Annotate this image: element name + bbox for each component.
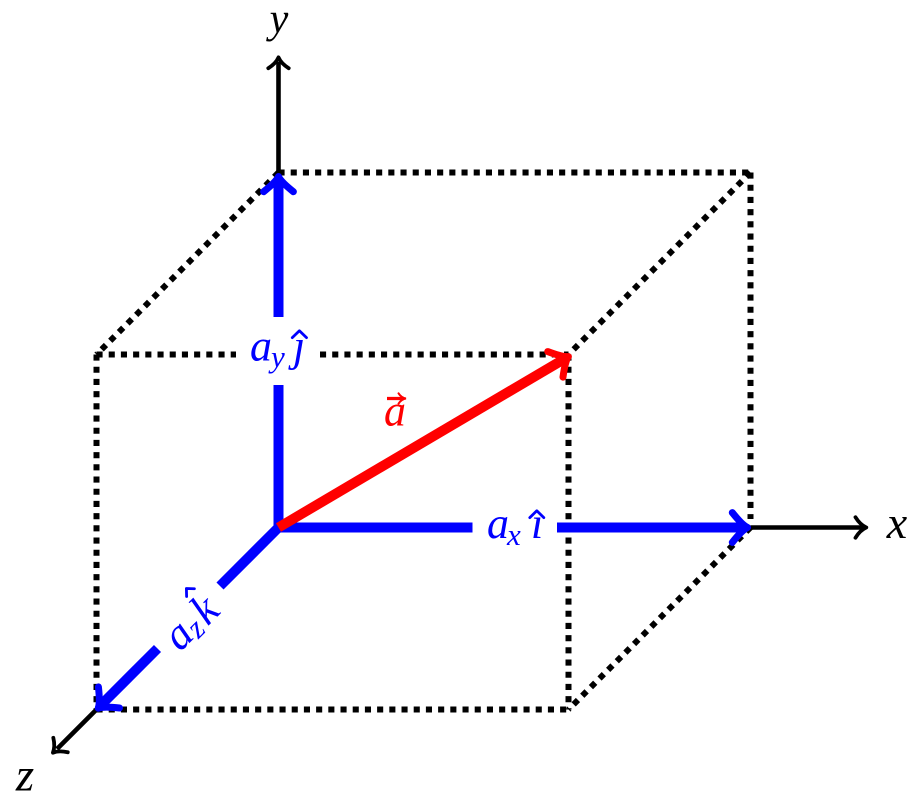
- svg-text:y: y: [268, 339, 285, 374]
- y-axis arrowhead: [268, 57, 288, 68]
- svg-text:z: z: [15, 750, 34, 802]
- cube edge C-F (top left diagonal, dotted): [97, 173, 279, 355]
- svg-text:x: x: [506, 517, 521, 552]
- vector a_z k shaft lower segment: [101, 649, 158, 706]
- svg-text:x: x: [886, 497, 908, 548]
- cube edge D-B (right back vertical, dotted): [748, 173, 754, 520]
- vector a_x i arrowhead: [732, 513, 747, 543]
- vector a_z k arrowhead: [88, 687, 120, 719]
- label a_z k-hat (rotated along z axis): [151, 582, 229, 660]
- x-axis shaft: [751, 525, 864, 530]
- vector a_x i shaft left segment: [279, 523, 473, 533]
- label vector a (red): [384, 386, 406, 435]
- cube edge B-H (bottom right diagonal, dotted): [569, 528, 751, 710]
- vector a_y j shaft upper segment: [274, 180, 284, 318]
- svg-text:ı: ı: [531, 499, 543, 548]
- svg-text:a: a: [250, 322, 272, 371]
- cube edge C-D (top back, dotted): [279, 170, 751, 176]
- cube edge E-H (front bottom, dotted): [97, 707, 569, 713]
- svg-text:a: a: [384, 386, 406, 435]
- vector a_x i shaft right segment: [557, 523, 745, 533]
- label a_x i-hat: [487, 499, 544, 552]
- svg-text:ȷ: ȷ: [288, 322, 305, 371]
- cube edge F-G left segment (front top, dotted): [97, 352, 237, 358]
- z-axis arrowhead: [46, 738, 68, 760]
- vector a_y j shaft lower segment: [274, 385, 284, 528]
- svg-text:y: y: [266, 0, 289, 42]
- label a_y j-hat: [250, 322, 307, 374]
- cube edge D-G (top right diagonal, dotted): [569, 173, 751, 355]
- vector a_z k shaft upper segment: [220, 528, 279, 587]
- vector a shaft: [279, 358, 566, 527]
- cube edge G-H (front right vertical, dotted): [566, 355, 572, 710]
- vector a_y j arrowhead: [264, 177, 294, 192]
- x-axis arrowhead: [856, 517, 867, 537]
- cube edge F-E (front left vertical, dotted): [94, 355, 100, 710]
- cube edge F-G right segment (front top, dotted): [320, 352, 569, 358]
- svg-text:a: a: [487, 499, 509, 548]
- y-axis shaft: [276, 62, 281, 173]
- z-axis shaft: [57, 710, 97, 750]
- vector a arrowhead: [548, 344, 576, 377]
